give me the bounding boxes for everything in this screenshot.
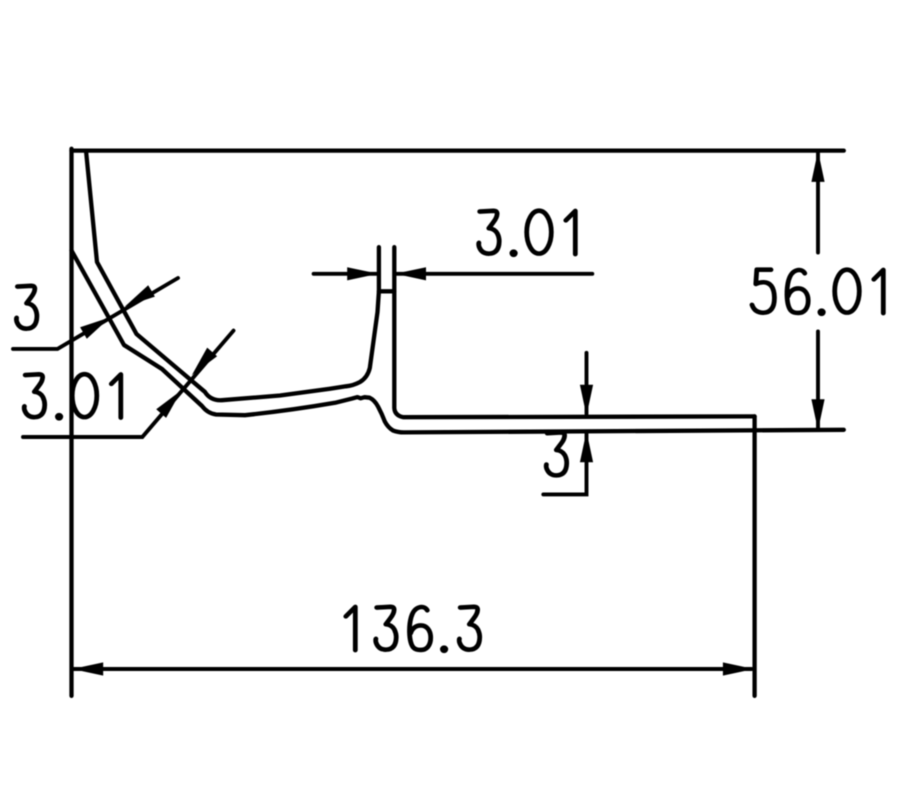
rib top cap bbox=[379, 289, 394, 293]
wire inner wall edge: rib left face, top edge of wall, inner diagonal up to top bbox=[86, 151, 379, 401]
arrow 3-mid pointing down bbox=[580, 385, 593, 416]
label 3 (bottom middle) bbox=[546, 433, 567, 476]
leader line for left 3 bbox=[13, 278, 178, 349]
dim line 3 mid, upper segment bbox=[585, 353, 589, 414]
dim line 56.01 upper segment bbox=[816, 153, 820, 253]
arrow 56.01 up bbox=[811, 151, 824, 182]
arrow left-3.01 pointing up-right bbox=[156, 390, 181, 418]
arrow 56.01 down bbox=[811, 399, 824, 430]
dim line 56.01 lower segment bbox=[816, 332, 820, 429]
arrow 136.3 right bbox=[723, 662, 754, 675]
label 136.3 (bottom) bbox=[346, 607, 480, 653]
profile right end cap + 136.3 right extension line bbox=[752, 416, 756, 695]
arrow 136.3 left bbox=[72, 662, 103, 675]
arrow 3.01-top pointing right bbox=[347, 267, 378, 280]
arrow left-3 pointing up-right bbox=[80, 317, 110, 338]
profile top edge + 56.01 top extension line bbox=[72, 148, 844, 152]
leader line for left 3.01 bbox=[23, 331, 234, 437]
wire rib right face + fillet + right wall top edge bbox=[394, 247, 754, 417]
dim line 136.3 bbox=[74, 667, 752, 671]
label 3.01 (left lower) bbox=[24, 374, 121, 420]
dim line 3 mid, lower segment + L leader bbox=[543, 432, 586, 494]
arrow 3.01-top pointing left bbox=[395, 267, 426, 280]
label 3.01 (top) bbox=[479, 211, 576, 257]
label 3 (left) bbox=[16, 286, 37, 329]
dim line 3.01 top, right segment bbox=[396, 272, 592, 276]
label 56.01 (right) bbox=[752, 270, 883, 316]
wire outer wall edge: diagonal, bottom of slanted wall, bump, bottom edge, 56.01 bottom extension bbox=[72, 251, 844, 433]
arrow left-3 pointing down-left bbox=[125, 285, 155, 306]
dim line 3.01 top, left segment bbox=[314, 272, 377, 276]
arrow 3-mid pointing up bbox=[580, 431, 593, 462]
profile left outer edge + 136.3 left extension line bbox=[69, 149, 73, 696]
arrow left-3.01 pointing down-left bbox=[192, 348, 217, 376]
